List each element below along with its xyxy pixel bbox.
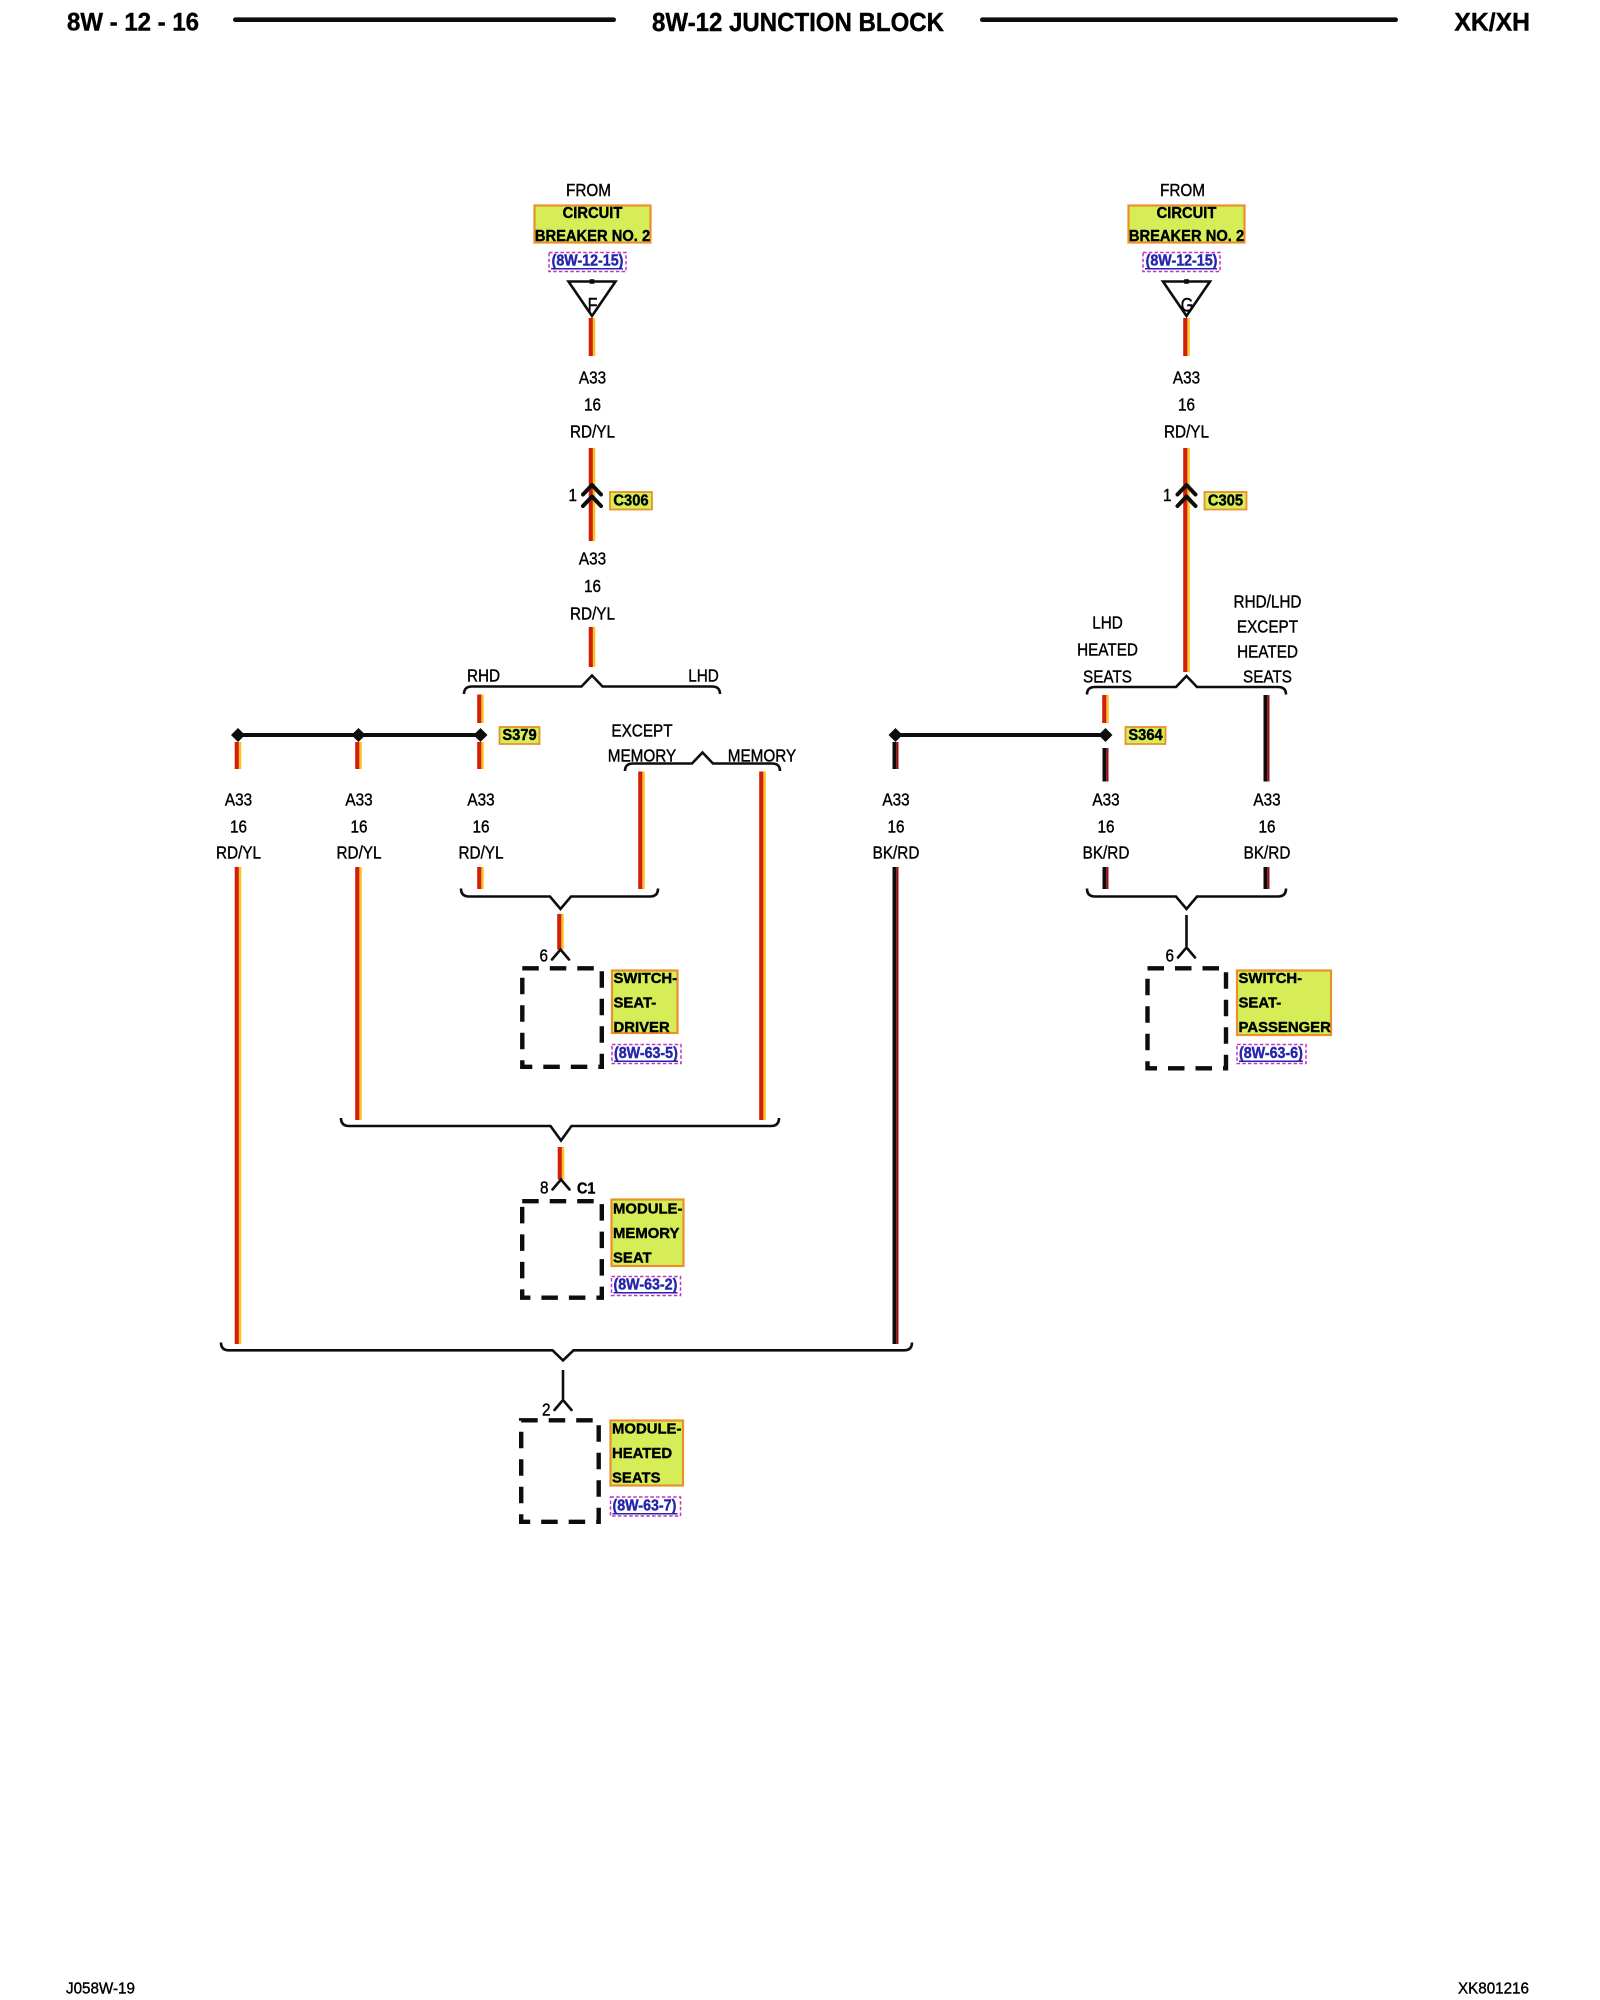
long wire BK/RD to heated seats module merge [893,867,899,1344]
svg-text:A33: A33 [579,548,606,568]
component label MODULE-MEMORY SEAT [612,1200,684,1267]
svg-text:6: 6 [539,945,548,965]
svg-text:A33: A33 [225,789,252,809]
svg-text:S364: S364 [1128,726,1163,744]
svg-text:RHD/LHD: RHD/LHD [1234,591,1302,611]
svg-text:LHD: LHD [688,665,719,685]
wire stub below splice x895 [893,742,899,769]
page reference link 8W-63-5 [612,1045,681,1064]
merge brace into driver seat switch [461,889,658,910]
svg-text:SWITCH-: SWITCH- [614,970,678,987]
wire stub to driver switch pin 6 [557,914,564,950]
svg-text:EXCEPT: EXCEPT [1237,616,1298,636]
wire EXCEPT MEMORY branch [638,772,645,890]
wire stub below splice x238 [235,742,242,769]
svg-text:SEATS: SEATS [1083,666,1132,686]
svg-text:2: 2 [542,1399,551,1419]
svg-text:G: G [1181,294,1194,316]
wire A33 16 RD/YL from triangle G [1183,318,1190,356]
split brace heated seats / except heated seats [1087,676,1286,695]
wire stub below splice x358 [355,742,362,769]
svg-text:SEAT: SEAT [613,1249,652,1266]
svg-text:SEAT-: SEAT- [1239,994,1282,1011]
wire LHD heated seats branch to splice S364 [1102,695,1109,723]
svg-text:SEATS: SEATS [1243,666,1292,686]
splice junction node S364 at x1105 [1099,728,1113,742]
svg-text:A33: A33 [467,789,494,809]
component label MODULE-HEATED SEATS [611,1421,684,1486]
wire stub BK/RD x1105 to passenger switch merge [1103,867,1109,889]
pin 6 terminal fork (passenger switch) [1178,948,1195,958]
svg-text:HEATED: HEATED [1237,641,1298,661]
svg-text:DRIVER: DRIVER [614,1019,670,1036]
svg-text:RD/YL: RD/YL [570,603,615,623]
component box MODULE-HEATED SEATS (dashed) [521,1420,599,1522]
svg-text:SWITCH-: SWITCH- [1239,970,1303,987]
splice label S379 [500,727,540,744]
splice S364 bus [896,733,1104,737]
svg-text:16: 16 [1258,816,1275,836]
component label SWITCH-SEAT-PASSENGER [1237,971,1331,1036]
merge brace into heated seats module [221,1343,912,1361]
svg-text:CIRCUIT: CIRCUIT [1157,205,1217,222]
in-line connector C306 chevrons, pin 1 [583,485,601,506]
svg-text:HEATED: HEATED [1077,639,1138,659]
pin 8 terminal fork, connector C1 [553,1180,570,1190]
splice junction node at x358 [352,728,366,742]
splice S379 bus [238,733,480,737]
in-line connector C305 chevrons, pin 1 [1178,485,1196,506]
svg-text:A33: A33 [345,789,372,809]
svg-text:RD/YL: RD/YL [216,842,261,862]
svg-text:RHD: RHD [467,665,500,685]
connector label C305 [1205,492,1247,510]
svg-text:(8W-63-2): (8W-63-2) [614,1277,678,1294]
svg-text:CIRCUIT: CIRCUIT [563,205,623,222]
svg-text:A33: A33 [1253,789,1280,809]
svg-text:(8W-63-7): (8W-63-7) [613,1498,677,1515]
splice junction node at x895 [889,728,903,742]
split brace RHD/LHD [464,676,720,695]
svg-text:RD/YL: RD/YL [1164,421,1209,441]
svg-text:XK801216: XK801216 [1458,1980,1529,1997]
svg-text:RD/YL: RD/YL [570,421,615,441]
long wire A33 RD/YL column1 to heated-seat module merge [235,867,242,1344]
wire stub to passenger switch pin 6 [1185,915,1188,947]
svg-text:8W - 12 - 16: 8W - 12 - 16 [67,9,199,37]
svg-text:S379: S379 [502,726,536,744]
component CIRCUIT BREAKER NO. 2 (left) [535,206,651,243]
svg-text:FROM: FROM [1160,180,1205,200]
svg-text:J058W-19: J058W-19 [66,1980,135,1997]
split brace EXCEPT MEMORY / MEMORY [625,753,780,772]
svg-text:8W-12 JUNCTION BLOCK: 8W-12 JUNCTION BLOCK [652,8,944,37]
page reference link 8W-63-2 [612,1277,681,1296]
svg-text:16: 16 [584,394,601,414]
long wire A33 RD/YL column2 to memory-seat module merge [355,867,362,1120]
wire A33 16 RD/YL from triangle F [589,318,596,356]
wire A33 RD/YL column3 to driver switch merge [477,867,484,889]
svg-text:C305: C305 [1208,492,1244,510]
svg-text:MEMORY: MEMORY [613,1225,679,1242]
wire RHD branch to splice S379 [477,695,484,724]
merge brace into passenger seat switch [1087,889,1286,910]
svg-text:FROM: FROM [566,180,611,200]
component CIRCUIT BREAKER NO. 2 (right) [1129,206,1245,243]
page reference link 8W-63-7 [611,1497,681,1516]
svg-text:BK/RD: BK/RD [1244,842,1291,862]
wire stub below splice x480 [477,742,484,769]
svg-text:16: 16 [230,816,247,836]
splice label S364 [1126,727,1166,744]
svg-text:1: 1 [1163,485,1172,505]
svg-text:BK/RD: BK/RD [873,842,920,862]
svg-text:MODULE-: MODULE- [612,1420,681,1437]
svg-text:LHD: LHD [1092,612,1123,632]
svg-text:(8W-63-5): (8W-63-5) [614,1046,678,1063]
header rule left [233,17,616,22]
svg-text:RD/YL: RD/YL [336,842,381,862]
component label SWITCH-SEAT-DRIVER [612,971,678,1034]
component box SWITCH-SEAT-PASSENGER (dashed) [1148,968,1227,1068]
svg-text:16: 16 [887,816,904,836]
svg-text:SEATS: SEATS [612,1469,661,1486]
svg-text:SEAT-: SEAT- [614,994,657,1011]
svg-text:A33: A33 [1173,367,1200,387]
wire stub BK/RD x1266 to passenger switch merge [1264,867,1270,889]
header rule right [980,17,1398,22]
svg-text:XK/XH: XK/XH [1454,9,1530,37]
svg-text:BK/RD: BK/RD [1083,842,1130,862]
splice junction node S379 at x480 [474,728,488,742]
wire BK/RD except heated seats branch [1264,695,1270,782]
svg-text:16: 16 [584,576,601,596]
svg-text:(8W-63-6): (8W-63-6) [1239,1046,1303,1063]
splice junction node at x238 [231,728,245,742]
svg-text:16: 16 [1097,816,1114,836]
svg-text:(8W-12-15): (8W-12-15) [552,253,624,270]
svg-text:16: 16 [350,816,367,836]
wire MEMORY branch to memory seat module [759,772,766,1121]
wire stub to heated seats module pin 2 [562,1370,565,1399]
pin 2 terminal fork (heated seats module) [555,1400,572,1410]
svg-text:F: F [588,294,598,316]
wire A33 16 RD/YL to RHD/LHD split [589,627,596,667]
off-page connector triangle F [569,279,616,316]
wire A33 16 RD/YL into connector C306 [589,448,596,541]
component box MODULE-MEMORY SEAT (dashed) [522,1201,602,1298]
svg-text:6: 6 [1165,945,1174,965]
wire BK/RD below splice S364 [1103,748,1109,782]
merge brace into memory seat module C1 [341,1118,779,1141]
svg-text:(8W-12-15): (8W-12-15) [1146,253,1218,270]
svg-text:RD/YL: RD/YL [458,842,503,862]
svg-text:A33: A33 [579,367,606,387]
svg-text:C1: C1 [577,1180,596,1198]
svg-text:16: 16 [472,816,489,836]
svg-text:C306: C306 [613,492,648,510]
svg-text:16: 16 [1178,394,1195,414]
svg-text:A33: A33 [882,789,909,809]
page reference link 8W-12-15 (left) [549,253,626,272]
svg-text:EXCEPT: EXCEPT [611,720,672,740]
svg-text:1: 1 [568,485,577,505]
page reference link 8W-63-6 [1237,1045,1306,1064]
component box SWITCH-SEAT-DRIVER (dashed) [522,968,602,1067]
svg-text:HEATED: HEATED [612,1445,672,1462]
page reference link 8W-12-15 (right) [1143,253,1220,272]
svg-text:PASSENGER: PASSENGER [1239,1019,1331,1036]
pin 6 terminal fork (driver switch) [552,950,569,960]
off-page connector triangle G [1163,279,1210,316]
svg-text:BREAKER NO. 2: BREAKER NO. 2 [535,228,650,245]
svg-text:BREAKER NO. 2: BREAKER NO. 2 [1129,228,1244,245]
svg-text:A33: A33 [1092,789,1119,809]
wire stub to memory module pin 8 [558,1147,565,1180]
svg-text:8: 8 [540,1177,549,1197]
wire A33 16 RD/YL through connector C305 [1183,448,1190,672]
svg-text:MODULE-: MODULE- [613,1200,682,1217]
connector label C306 [610,492,652,510]
